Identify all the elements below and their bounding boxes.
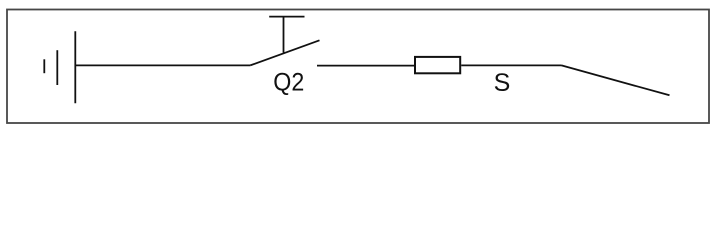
wire xyxy=(317,65,415,67)
wire xyxy=(75,64,250,66)
svg-text:S: S xyxy=(494,69,511,97)
ground xyxy=(44,31,75,103)
resistor S xyxy=(415,57,460,73)
pushbutton switch Q2 xyxy=(250,17,319,66)
svg-text:Q2: Q2 xyxy=(273,69,304,97)
wire xyxy=(461,64,561,66)
wire xyxy=(562,65,670,95)
